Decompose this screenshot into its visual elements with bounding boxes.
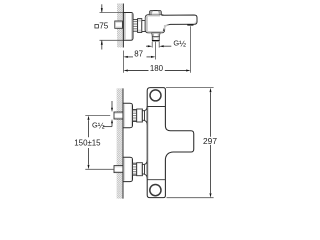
upper neck (bottom view): [142, 111, 144, 121]
150 extension line upper: [85, 115, 110, 117]
mixer body (top view): [145, 15, 164, 33]
G1/2 extension lines (top view): [151, 42, 153, 48]
cartridge cap on body (top view): [149, 11, 161, 15]
svg-text:87: 87: [134, 49, 143, 58]
spout inner bottom shading (top view): [171, 21, 197, 24]
lower escutcheon (bottom view): [123, 157, 133, 181]
dimension square-75: lower arrow: [101, 41, 103, 50]
connection ring (top view): [138, 19, 142, 33]
svg-text:75: 75: [99, 22, 109, 31]
lower neck (bottom view): [142, 164, 144, 174]
label square75: [95, 22, 109, 31]
column inner shading (bottom view): [148, 107, 149, 179]
upper nut (bottom view): [137, 109, 143, 122]
spout (top view): [160, 15, 197, 31]
connection neck (top view): [142, 21, 145, 32]
svg-text:G½: G½: [173, 38, 186, 48]
dimension 297: [210, 88, 212, 198]
spout outlet extension line (180): [190, 26, 192, 72]
dimension 180: [123, 70, 190, 72]
wall extension line for 87/180: [122, 51, 124, 73]
297 extension line bottom: [167, 197, 214, 199]
upper thread (bottom view): [133, 110, 137, 122]
297 extension line top: [166, 87, 214, 89]
G1/2 arrows (top view): [146, 45, 171, 47]
lower flare to body (bottom view): [145, 160, 148, 179]
lower handle circle: [150, 185, 161, 196]
mixer body outline (bottom view): [147, 88, 194, 198]
dimension 87: [123, 56, 155, 58]
shower outlet nipple G1/2 (top view): [152, 37, 159, 41]
upper block separator line: [147, 106, 165, 108]
upper escutcheon (bottom view): [123, 103, 133, 127]
wall face line (top view): [122, 4, 124, 48]
extension line top (plate top, y=12): [100, 12, 124, 14]
spout root shading (top view): [164, 25, 170, 31]
connection nut with thread shading (top view): [133, 20, 138, 32]
wall (hatched section, bottom view): [117, 88, 123, 198]
upper supply stub (bottom view): [114, 112, 123, 119]
supply stub square in wall (top view): [115, 21, 123, 28]
shower outlet boss under body (top view): [152, 33, 160, 37]
wall (hatched section, top view): [117, 4, 123, 48]
upper handle circle: [150, 90, 161, 101]
svg-text:150±15: 150±15: [74, 139, 101, 148]
lower thread (bottom view): [133, 163, 137, 175]
lower block separator line: [147, 179, 165, 181]
87 centre extension line: [155, 42, 157, 60]
wall face line (bottom view): [122, 88, 124, 198]
150 extension line lower: [85, 168, 114, 170]
svg-text:180: 180: [150, 64, 164, 73]
lower supply stub (bottom view): [114, 166, 123, 173]
G1/2 arrows (bottom view): [103, 101, 113, 127]
extension line bottom (plate bottom, y=40.3): [100, 39, 124, 41]
svg-text:297: 297: [203, 136, 217, 146]
escutcheon plate (top view, 75mm square seen from side): [123, 13, 133, 41]
upper flare to body (bottom view): [145, 106, 148, 125]
dimension 150+-15: [88, 116, 90, 170]
dimension square-75: upper arrow: [101, 4, 103, 49]
svg-text:G½: G½: [92, 121, 105, 131]
aerator at spout tip (top view): [187, 24, 193, 25]
lower nut (bottom view): [137, 163, 143, 176]
